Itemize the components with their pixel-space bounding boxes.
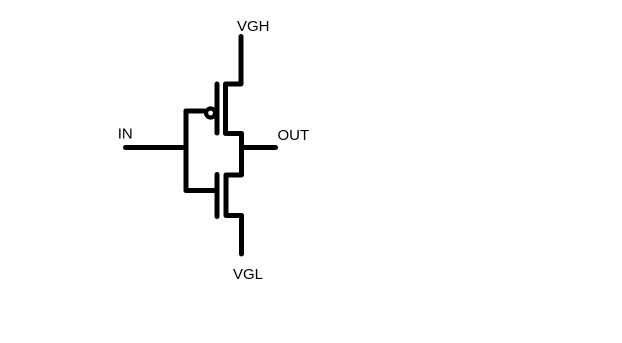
transistor Q2 NMOS channel bar <box>224 175 229 216</box>
wire OUT horizontal lead <box>242 145 276 150</box>
wire NMOS gate stub <box>186 188 217 193</box>
svg-text:OUT: OUT <box>278 127 310 144</box>
wire input vertical branch <box>184 111 189 191</box>
wire IN horizontal lead <box>126 145 187 150</box>
transistor Q1 PMOS gate bar <box>215 84 220 133</box>
wire VGH supply to PMOS source lead <box>227 37 241 85</box>
svg-text:IN: IN <box>118 125 133 142</box>
wire NMOS source lead to VGL <box>228 216 242 255</box>
svg-text:VGH: VGH <box>237 18 270 35</box>
svg-text:VGL: VGL <box>233 266 263 283</box>
transistor Q1 PMOS gate bubble <box>206 109 215 118</box>
wire PMOS gate stub <box>186 109 204 114</box>
wire PMOS drain down to OUT junction <box>227 134 242 148</box>
wire OUT junction down to NMOS drain lead <box>228 148 242 176</box>
transistor Q2 NMOS gate bar <box>215 175 220 217</box>
transistor Q1 PMOS channel bar <box>223 84 228 134</box>
